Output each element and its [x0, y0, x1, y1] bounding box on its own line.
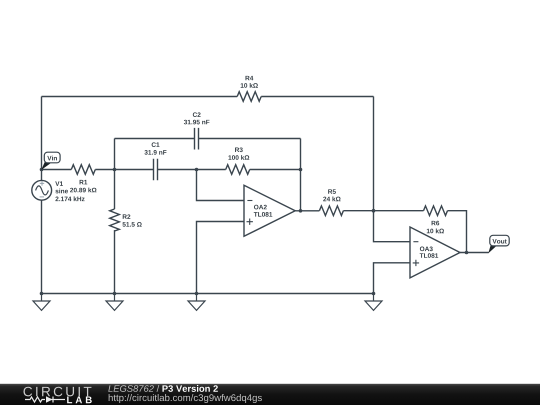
footer url line: [109, 394, 262, 403]
V1 plus polarity mark: [40, 181, 44, 185]
wire V1 top lead: [41, 170, 43, 181]
junction OA2 output node: [299, 209, 303, 213]
resistor R5: [319, 206, 343, 216]
wire OA3 output to Vout: [460, 252, 489, 254]
wire R1 row: [42, 169, 115, 171]
OA3 plus pin mark: [413, 260, 419, 266]
wire R2 top lead: [114, 170, 116, 210]
label R4 name and value: [241, 76, 258, 88]
junction ground rail at V1: [40, 292, 44, 296]
wire R3 to feedback node: [250, 169, 301, 171]
footer logo waveform and diode: [25, 397, 65, 403]
wire R2 bottom lead: [114, 230, 116, 293]
label R1 name and value: [70, 180, 96, 192]
wire V1 bottom lead: [41, 200, 43, 293]
junction R1-R2-C1-C2 node: [113, 168, 117, 172]
wire OA2 output to R5: [295, 210, 319, 212]
footer logo LAB: [67, 397, 92, 404]
junction ground rail at OA3 input: [372, 292, 376, 296]
wire C2 branch left vertical: [114, 139, 116, 170]
capacitor C2: [195, 128, 199, 150]
wire bottom ground rail: [42, 293, 374, 295]
ground symbol 1: [33, 294, 50, 311]
junction R5-R6 top rail node: [372, 209, 376, 213]
wire OA2 non-inverting input to ground rail: [197, 222, 245, 294]
OA3 minus pin mark: [413, 241, 418, 243]
resistor R4: [237, 92, 261, 102]
label OA2 name and part: [254, 205, 273, 217]
wire left rail: [41, 97, 43, 170]
resistor R3: [226, 165, 250, 175]
OA2 plus pin mark: [247, 219, 253, 225]
label C1 name and value: [144, 142, 166, 154]
flag Vin: [41, 152, 60, 170]
wire C2 right vertical: [300, 139, 302, 170]
wire C2 row right: [199, 138, 301, 140]
junction Vin node: [40, 168, 44, 172]
ground symbol 3: [188, 294, 205, 311]
footer bar: [0, 384, 540, 405]
V1 minus polarity mark: [40, 196, 44, 198]
junction ground rail at R2: [113, 292, 117, 296]
resistor R2: [110, 209, 120, 231]
wire C2 row left: [115, 138, 195, 140]
label R2 name and value: [123, 214, 142, 226]
label V1 name and value: [55, 181, 84, 201]
OA2 minus pin mark: [247, 200, 252, 202]
wire top rail: [42, 96, 374, 98]
wire R6 right end down to OA3 output: [448, 211, 467, 253]
op-amp OA2: [244, 185, 295, 236]
wire feedback vertical to OA2 output: [300, 170, 302, 211]
wire right vertical from top rail: [373, 97, 375, 211]
label R6 name and value: [427, 221, 444, 234]
op-amp OA3: [410, 227, 460, 278]
wire OA3 inverting input: [374, 211, 411, 242]
label R3 name and value: [228, 147, 249, 159]
ground symbol 2: [106, 294, 123, 311]
junction ground rail at OA2 input: [195, 292, 199, 296]
wire OA3 non-inverting input to ground: [374, 263, 411, 294]
resistor R1: [71, 165, 95, 175]
wire C1 to node B: [158, 169, 197, 171]
label C2 name and value: [184, 112, 210, 124]
footer title line: [108, 385, 218, 392]
label OA3 name and part: [420, 247, 439, 258]
junction R3-C2 feedback node: [299, 168, 303, 172]
flag Vout: [488, 235, 509, 253]
capacitor C1: [154, 159, 158, 180]
junction C1-R3 op-amp input node: [195, 168, 199, 172]
junction OA3 output node: [465, 251, 469, 255]
wire C1 row left: [115, 169, 154, 171]
wire OA2 inverting input: [197, 170, 245, 201]
resistor R6: [424, 206, 448, 216]
footer logo CIRCUIT: [23, 387, 91, 397]
label R5 name and value: [323, 189, 340, 201]
voltage source V1: [32, 180, 52, 200]
wire R5 to R6 row: [343, 210, 423, 212]
wire node B to R3: [197, 169, 226, 171]
ground symbol 4: [365, 294, 382, 311]
